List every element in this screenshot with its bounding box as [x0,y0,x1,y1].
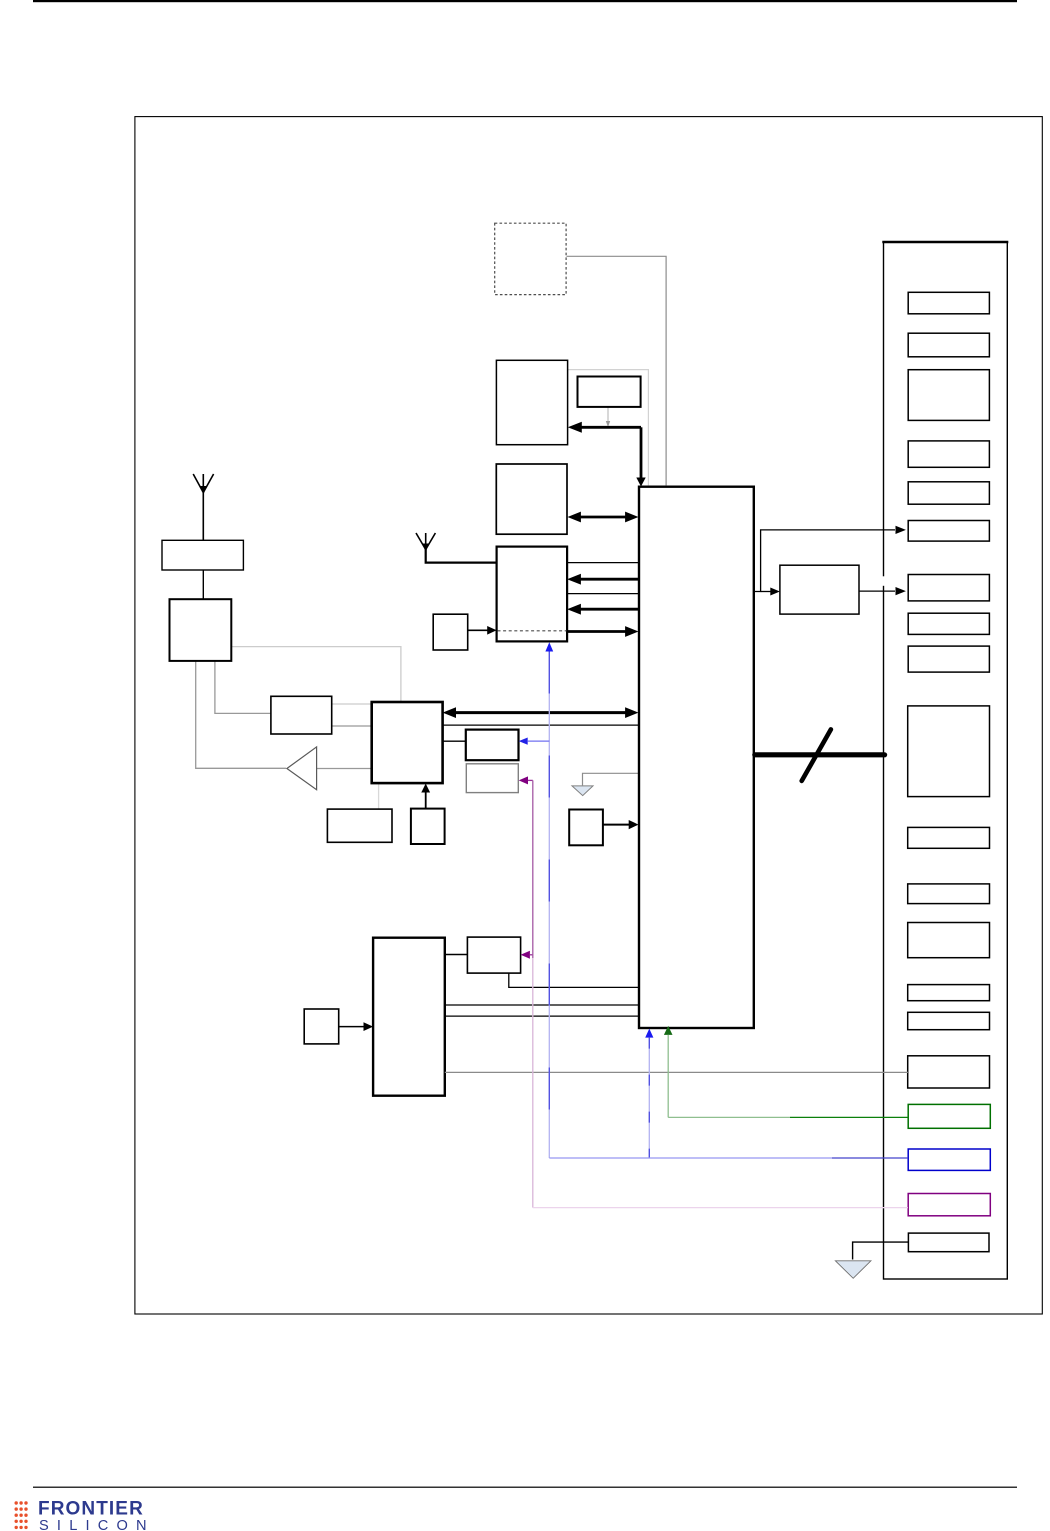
purple vertical wire [532,780,534,958]
wire black panel box P20 to ground [853,1242,909,1259]
mixer box [271,696,332,734]
green arrow up into CPU bottom [664,1026,673,1035]
panel box P17 green [908,1104,990,1128]
wire box3-CPU thin 1 [567,562,638,564]
wire grey stub tuner bottom to box E [378,784,380,809]
box1 (decoder) [496,360,567,444]
ground symbol large [835,1261,871,1279]
wire grey stub from small box B down [607,408,609,423]
panel box P4 [908,441,989,467]
blue wire vertical from box3 down [548,652,550,1159]
arrow box I into SDRAM [339,1026,364,1028]
panel box P13 [908,923,990,958]
small box I [304,1009,339,1044]
pink horizontal wire to panel box P19 [533,1207,908,1209]
logo dots [15,1501,28,1529]
panel box P9 [908,646,989,672]
CPU right wires to panel [882,576,886,586]
box J codec [780,565,859,614]
box F xtal under tuner [411,809,445,844]
arrow F up into tuner [425,792,427,809]
purple arrow into grey box D [519,776,528,784]
panel box P3 [908,370,989,421]
wire light grey from box1 top to CPU top [568,370,648,486]
small box G [433,614,468,650]
svg-text:SILICON: SILICON [39,1518,155,1531]
blue arrow up into CPU bottom [645,1029,653,1038]
dashed line inside box3 [498,630,567,632]
crystal box C [466,730,519,761]
panel box P12 [908,884,990,904]
panel box P14 [908,985,990,1001]
panel box P16 [908,1056,990,1088]
long double arrow tuner-CPU [455,711,627,714]
box H [467,937,520,973]
wire tuner to crystal box C [443,740,466,742]
wire filter to RF box [202,570,204,599]
antenna A2 [416,533,435,550]
wire grey SDRAM to panel box P16 [445,1071,908,1073]
panel box P6 [908,521,989,542]
memory bus thick [755,752,885,757]
black elbow arrow into box1 and CPU top [581,426,641,429]
footer rule [33,1487,1017,1488]
wire SDRAM to CPU 2 [445,1015,639,1017]
panel box P5 [908,482,989,504]
tuner box [372,702,443,783]
panel box P19 purple [908,1194,990,1216]
CPU main box [639,487,754,1028]
arrow CPU to box3 (1) [580,578,639,581]
band filter box [162,540,243,570]
box K under CPU left [569,810,603,846]
wire antenna A2 to DAB box3 [426,548,497,563]
wire mixer to tuner (upper) [332,703,372,705]
SDRAM left box [373,938,445,1096]
wire grey from dashed box to CPU top [567,256,667,485]
grey box D [466,764,518,793]
svg-text:FRONTIER: FRONTIER [38,1499,144,1520]
antenna A1 [193,474,213,540]
arrow box K into CPU [603,824,630,826]
panel box P20 black [908,1233,989,1252]
wire grey L with ground near CPU [583,773,639,785]
purple arrow into box H [521,951,530,959]
arrow CPU to box3 (2) [580,608,639,611]
box E below tuner [327,809,392,842]
blue horizontal wire to panel box P18 [549,1157,832,1159]
double arrow box2-CPU [578,516,628,519]
green vertical from CPU bottom [667,1035,669,1118]
panel box P7 [908,575,989,601]
panel box P8 [908,613,989,634]
dashed box (optional module) [495,223,566,294]
figure frame [135,117,1042,1314]
thin wire tuner-CPU [443,724,639,726]
small box B [578,377,641,407]
wire SDRAM to CPU 1 [445,1004,639,1006]
wire box J to panel [859,590,895,592]
DAB RF box3 [497,547,567,642]
wire mixer to tuner (lower) [332,725,372,727]
ground symbol small [572,786,593,796]
RF front-end square box [170,599,232,661]
blue branch arrow into box C [519,738,528,745]
wire grey square-box bottom to mixer [215,661,271,713]
panel box P15 [908,1012,990,1029]
header bar [33,0,1017,2]
blue arrow up into box3 [545,642,553,651]
wire grey square-box bottom to amp [196,661,286,768]
bus slash [802,729,831,781]
box2 [496,464,567,534]
panel box P2 [908,333,989,357]
green horizontal to panel box P17 [668,1116,790,1118]
arrow G into box3 [468,629,488,631]
panel box P11 [908,827,990,848]
amplifier triangle [287,747,317,790]
wire box H bottom to CPU [509,974,639,988]
arrow box3 to CPU [567,630,626,633]
right panel (peripherals column) [882,242,1008,1279]
blue dashed vertical from CPU bottom [648,1038,650,1158]
panel box P1 [908,292,989,314]
wire amp to tuner [317,768,372,770]
panel box P10 [908,706,990,797]
panel box P18 blue [908,1149,990,1170]
wire SDRAM to box H [445,954,468,956]
wire grey square-box to tuner top [231,647,401,701]
wire box3-CPU thin 2 [567,593,638,595]
